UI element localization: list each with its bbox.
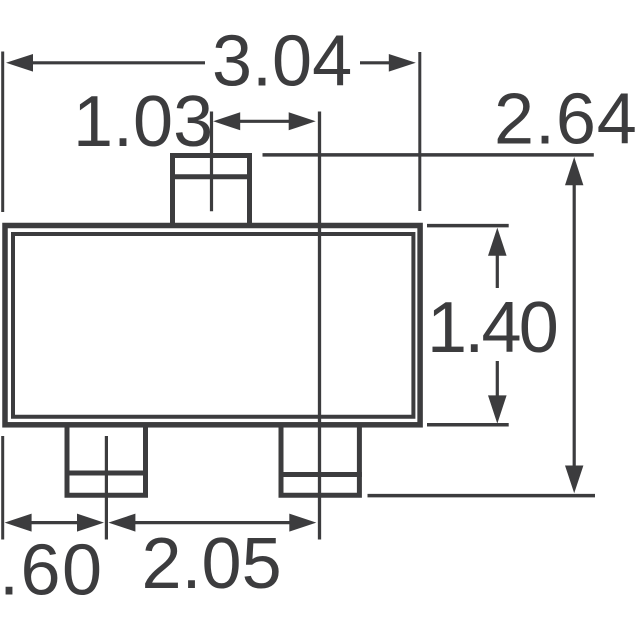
svg-text:2.05: 2.05 [142, 524, 282, 604]
svg-text:1.40: 1.40 [427, 288, 557, 368]
package body inner outline [13, 234, 413, 417]
extension line lead 3 center (1.03 left) [210, 112, 213, 212]
arrowhead 2.05 left [108, 514, 135, 532]
dimension line 1.40 lower segment [496, 361, 499, 396]
extension line body top right (1.40 top) [427, 224, 509, 228]
package body outer outline [5, 226, 420, 425]
arrowhead 2.64 bottom [565, 466, 583, 494]
svg-text:1.03: 1.03 [73, 82, 213, 162]
arrowhead 1.03 left [213, 112, 240, 130]
arrowhead .60 left [5, 514, 32, 532]
arrowhead 2.64 top [565, 157, 583, 185]
lead 2 seam line [279, 472, 362, 477]
lead 3 (top tab) outline [173, 156, 250, 227]
extension line lead 1 center (.60 right / 2.05 left) [105, 436, 108, 540]
dimension line 2.05 [134, 521, 290, 524]
dimension line 1.40 upper segment [496, 255, 499, 288]
dimension line 3.04 left segment [32, 61, 205, 64]
extension line left top (3.04 left) [1, 52, 4, 213]
extension line top of lead 3 (2.64 top) [263, 153, 594, 157]
arrowhead 3.04 right [389, 54, 416, 72]
dimension line .60 [31, 521, 78, 524]
lead 3 seam line [170, 174, 252, 179]
extension line body bottom right (1.40 bottom) [427, 423, 509, 427]
extension line left bottom (.60 left) [1, 436, 4, 540]
arrowhead .60 right [77, 514, 104, 532]
svg-text:.60: .60 [0, 531, 104, 611]
arrowhead 3.04 left [6, 54, 33, 72]
arrowhead 2.05 right [289, 514, 316, 532]
dimension line 1.03 [239, 120, 290, 123]
extension line lead bottoms (2.64 bottom) [368, 494, 596, 498]
lead 1 seam line [65, 471, 149, 476]
svg-text:3.04: 3.04 [212, 22, 352, 102]
dimension line 3.04 right segment [360, 61, 390, 64]
arrowhead 1.40 bottom [488, 395, 507, 423]
svg-text:2.64: 2.64 [494, 80, 638, 160]
extension line lead 2 center long (1.03 right / 2.05 right) [318, 112, 321, 540]
lead 1 (bottom left) outline [67, 424, 146, 495]
lead 2 (bottom right) outline [281, 424, 359, 495]
dimension line 2.64 [573, 184, 576, 466]
arrowhead 1.03 right [289, 112, 316, 130]
extension line right top (3.04 right) [418, 52, 421, 211]
arrowhead 1.40 top [488, 228, 507, 256]
